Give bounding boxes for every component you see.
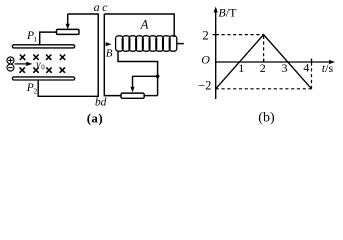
svg-text:(b): (b) bbox=[258, 110, 275, 125]
svg-text:B/T: B/T bbox=[218, 5, 237, 19]
svg-text:d: d bbox=[101, 97, 107, 109]
svg-text:4: 4 bbox=[303, 61, 309, 75]
svg-text:1: 1 bbox=[34, 35, 38, 43]
svg-text:A: A bbox=[140, 18, 149, 32]
svg-text:0: 0 bbox=[41, 64, 45, 72]
svg-text:v: v bbox=[36, 60, 41, 71]
svg-text:t/s: t/s bbox=[322, 61, 334, 75]
svg-text:2: 2 bbox=[260, 61, 266, 75]
svg-text:2: 2 bbox=[202, 28, 209, 43]
svg-text:c: c bbox=[102, 2, 107, 14]
svg-text:1: 1 bbox=[238, 61, 244, 75]
svg-text:O: O bbox=[201, 53, 210, 67]
svg-text:3: 3 bbox=[282, 61, 288, 75]
svg-text:2: 2 bbox=[34, 88, 38, 96]
svg-text:B: B bbox=[106, 47, 113, 59]
svg-text:(a): (a) bbox=[87, 110, 103, 125]
svg-text:a: a bbox=[94, 0, 100, 14]
svg-text:P: P bbox=[26, 82, 34, 94]
svg-text:−2: −2 bbox=[198, 78, 211, 92]
